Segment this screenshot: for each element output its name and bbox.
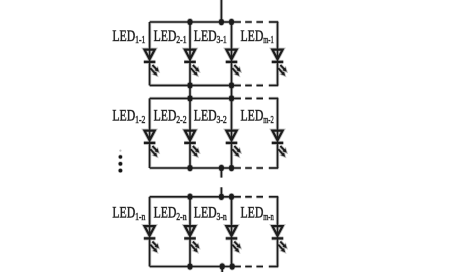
svg-text:m-n: m-n (263, 211, 274, 223)
svg-text:1-n: 1-n (135, 211, 146, 223)
svg-text:LED: LED (112, 28, 135, 45)
svg-text:m-1: m-1 (263, 34, 274, 46)
svg-text:2-n: 2-n (176, 211, 187, 223)
svg-text:3-1: 3-1 (217, 34, 227, 46)
svg-text:LED: LED (154, 28, 177, 45)
svg-text:3-n: 3-n (217, 211, 228, 223)
svg-text:2-1: 2-1 (176, 34, 186, 46)
svg-text:2-2: 2-2 (176, 114, 186, 126)
svg-text:LED: LED (241, 28, 264, 45)
svg-text:m-2: m-2 (263, 114, 274, 126)
svg-text:LED: LED (154, 108, 177, 125)
svg-text:1-1: 1-1 (135, 34, 145, 46)
svg-text:3-2: 3-2 (217, 114, 227, 126)
svg-text:LED: LED (241, 108, 264, 125)
svg-text:LED: LED (154, 205, 177, 222)
svg-text:LED: LED (241, 205, 264, 222)
svg-text:LED: LED (194, 28, 217, 45)
svg-text:LED: LED (112, 205, 135, 222)
svg-text:LED: LED (112, 108, 135, 125)
svg-text:LED: LED (194, 108, 217, 125)
svg-text:LED: LED (194, 205, 217, 222)
svg-text:1-2: 1-2 (135, 114, 145, 126)
